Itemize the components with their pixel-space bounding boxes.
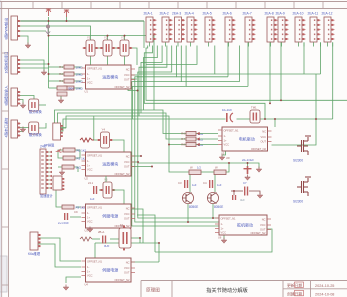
svg-text:VCC: VCC	[124, 73, 130, 77]
wire	[49, 80, 65, 82]
canvas margin strip	[0, 0, 1, 297]
wire	[110, 238, 119, 240]
wire stub	[281, 42, 283, 46]
svg-text:1uF: 1uF	[90, 197, 95, 201]
border tick	[322, 2, 324, 9]
svg-text:24.1: 24.1	[88, 181, 94, 185]
net flag	[46, 25, 50, 34]
mosfet Q4	[297, 177, 311, 196]
resistor R16	[80, 237, 92, 241]
ground	[20, 103, 26, 109]
capacitor C6 electrolytic	[244, 166, 252, 174]
wire bus	[139, 46, 215, 75]
svg-text:1uF: 1uF	[217, 183, 222, 187]
svg-text:U4: U4	[85, 283, 89, 287]
svg-text:C7: C7	[243, 181, 247, 185]
connector J7	[30, 232, 41, 250]
crystal Y1	[83, 36, 99, 57]
svg-text:10kΩ: 10kΩ	[76, 86, 84, 90]
wire stub	[298, 42, 300, 46]
junction	[158, 242, 160, 244]
svg-text:2EA-8: 2EA-8	[265, 12, 274, 16]
resistor R14	[63, 156, 86, 160]
wire	[247, 43, 249, 87]
wire	[320, 43, 322, 75]
svg-text:1+: 1+	[87, 77, 90, 81]
wire	[139, 238, 141, 243]
wire stub	[149, 42, 151, 46]
svg-text:OFFSET_N1: OFFSET_N1	[87, 153, 103, 157]
svg-text:NC: NC	[126, 67, 130, 71]
svg-text:R0 1k2: R0 1k2	[77, 148, 87, 152]
wire	[75, 150, 80, 158]
wire	[76, 206, 81, 208]
wire	[113, 190, 125, 204]
wire	[46, 187, 52, 189]
svg-text:OFFSET_N2: OFFSET_N2	[115, 278, 131, 282]
connector P1	[144, 12, 157, 43]
junction	[269, 102, 271, 104]
connector P6	[223, 12, 236, 43]
svg-text:C9: C9	[74, 210, 78, 214]
connector P4	[185, 12, 198, 43]
svg-text:SI2300: SI2300	[293, 159, 303, 163]
wire	[196, 138, 218, 140]
capacitor C11	[93, 186, 97, 194]
svg-text:8050E: 8050E	[189, 205, 198, 209]
svg-text:1-: 1-	[224, 134, 226, 138]
module K1	[29, 99, 39, 111]
junction	[212, 217, 214, 219]
svg-text:VCC: VCC	[221, 231, 227, 235]
wire net VCC top	[17, 20, 144, 22]
wire	[189, 175, 191, 193]
wire	[49, 73, 65, 75]
wire bus	[61, 116, 187, 145]
connector P11	[308, 12, 321, 43]
svg-text:VCC: VCC	[260, 223, 266, 227]
wire	[38, 244, 81, 267]
wire	[269, 43, 271, 104]
svg-text:C3: C3	[178, 181, 182, 185]
junction	[233, 190, 235, 192]
svg-text:1-: 1-	[87, 211, 89, 215]
wire	[70, 216, 81, 218]
wire	[17, 60, 44, 71]
svg-text:OUT: OUT	[124, 165, 130, 169]
wire	[131, 78, 137, 80]
connector J4	[4, 117, 21, 138]
svg-text:VCC: VCC	[124, 212, 130, 216]
component box	[57, 92, 67, 96]
junction	[107, 35, 109, 37]
svg-text:2EA-1: 2EA-1	[144, 12, 153, 16]
svg-text:1+: 1+	[87, 216, 90, 220]
wire	[249, 191, 260, 194]
junction	[168, 144, 170, 146]
ground	[58, 98, 64, 104]
resistor R7	[181, 137, 204, 141]
wire stub	[270, 42, 272, 46]
svg-text:模式转换: 模式转换	[29, 109, 43, 114]
junction	[66, 20, 68, 22]
wire bus	[61, 119, 226, 131]
junction	[48, 63, 50, 65]
svg-text:8路PWM输出: 8路PWM输出	[4, 18, 9, 40]
wire bus	[135, 46, 219, 223]
svg-text:10kΩ: 10kΩ	[76, 72, 84, 76]
svg-text:VCC: VCC	[87, 220, 93, 224]
wire	[46, 183, 52, 185]
wire	[280, 43, 282, 101]
junction	[124, 35, 126, 37]
driver module U6	[215, 215, 271, 240]
net flag	[197, 143, 200, 146]
wire bus	[146, 46, 197, 65]
regulator module U4	[82, 258, 136, 287]
resistor R8	[181, 143, 204, 147]
connector P12	[322, 12, 335, 43]
wire bus	[58, 113, 187, 139]
svg-text:NC: NC	[262, 129, 266, 133]
wire	[227, 43, 229, 77]
svg-text:U1: U1	[85, 90, 89, 94]
capacitor C7	[244, 187, 248, 196]
wire	[46, 175, 52, 177]
svg-text:R2: R2	[59, 72, 63, 76]
wire	[112, 47, 120, 49]
wire	[58, 166, 62, 168]
ground	[219, 155, 225, 161]
ground	[87, 227, 93, 233]
border tick	[119, 2, 121, 9]
wire	[49, 87, 65, 89]
wire	[158, 243, 160, 262]
svg-text:0UF: 0UF	[104, 244, 110, 248]
svg-text:K6a推理: K6a推理	[28, 251, 41, 256]
ground	[221, 238, 227, 244]
wire	[17, 63, 49, 65]
svg-text:2EA-6: 2EA-6	[223, 12, 232, 16]
canvas panel box	[0, 256, 7, 292]
resistor R3	[59, 79, 83, 83]
svg-text:Y1: Y1	[87, 36, 91, 40]
wire	[124, 56, 126, 65]
wire	[74, 87, 82, 89]
wire	[49, 36, 155, 110]
connector J3	[4, 85, 21, 106]
junction	[151, 166, 153, 168]
svg-text:2EA-9: 2EA-9	[276, 12, 285, 16]
svg-text:指关节随动分解版: 指关节随动分解版	[206, 286, 248, 294]
svg-text:OFFSET_N1: OFFSET_N1	[221, 216, 237, 220]
crystal Y2	[100, 36, 116, 57]
wire	[233, 191, 235, 195]
wire	[95, 47, 103, 49]
title block top line	[141, 280, 347, 282]
wire	[90, 56, 92, 65]
svg-text:OFFSET_N1: OFFSET_N1	[224, 128, 240, 132]
svg-text:OFFSET_N2: OFFSET_N2	[251, 231, 267, 235]
wire	[94, 139, 100, 141]
svg-text:24C: 24C	[40, 145, 47, 149]
title block row line	[283, 288, 347, 290]
wire	[143, 21, 145, 48]
resistor R2	[59, 72, 83, 76]
transistor Q2	[207, 192, 223, 209]
wire stub	[165, 42, 167, 46]
wire	[46, 167, 52, 169]
component K3	[119, 226, 131, 251]
wire	[247, 163, 249, 166]
wire	[124, 36, 126, 40]
svg-text:3uF: 3uF	[240, 198, 245, 202]
junction	[264, 118, 266, 120]
svg-text:2+1 0UF: 2+1 0UF	[58, 221, 69, 225]
wire	[107, 36, 109, 40]
svg-text:1-: 1-	[87, 72, 89, 76]
junction	[137, 90, 139, 92]
wire	[99, 189, 101, 191]
sheet border outer top	[0, 1, 347, 3]
wire	[231, 190, 243, 192]
wire stub	[190, 42, 192, 46]
resistor R18	[214, 170, 226, 175]
wire	[237, 118, 251, 120]
svg-text:NC: NC	[126, 154, 130, 158]
border tick	[293, 2, 295, 9]
svg-text:加速度计: 加速度计	[40, 193, 54, 198]
svg-text:R1: R1	[59, 65, 63, 69]
ground	[245, 175, 251, 181]
wire	[212, 204, 214, 218]
svg-text:OFFSET_N1: OFFSET_N1	[87, 66, 103, 70]
ground	[256, 167, 262, 173]
svg-text:1+: 1+	[87, 164, 90, 168]
svg-text:舵机驱动: 舵机驱动	[237, 222, 253, 228]
wire bus	[139, 46, 167, 117]
wire VCC trunk	[48, 17, 50, 88]
svg-text:1kΩ: 1kΩ	[76, 165, 82, 169]
wire	[214, 175, 216, 193]
svg-text:R6: R6	[181, 132, 185, 136]
svg-text:VCC: VCC	[261, 135, 267, 139]
wire	[92, 238, 100, 240]
module K2	[29, 122, 39, 134]
junction	[48, 73, 50, 75]
title block divider	[171, 281, 173, 297]
svg-text:OUT: OUT	[124, 78, 130, 82]
svg-text:B04: B04	[69, 86, 75, 90]
border tick	[177, 2, 179, 9]
svg-text:伺服电源: 伺服电源	[102, 213, 118, 219]
wire	[239, 46, 241, 82]
resistor R1	[59, 65, 83, 69]
border tick	[32, 2, 34, 9]
border tick	[2, 284, 9, 286]
wire	[93, 116, 95, 140]
junction	[247, 162, 249, 164]
svg-text:VCC: VCC	[87, 81, 93, 85]
ground	[25, 43, 31, 49]
wire stub	[313, 42, 315, 46]
svg-text:JW: JW	[226, 156, 230, 160]
junction	[48, 20, 50, 22]
svg-text:8050E: 8050E	[214, 205, 223, 209]
connector P9	[276, 12, 289, 43]
capacitor C4	[209, 180, 213, 188]
mosfet Q3	[297, 136, 311, 155]
ground	[63, 285, 69, 291]
svg-text:U2: U2	[85, 177, 89, 181]
connector P7	[243, 12, 256, 43]
wire	[66, 277, 81, 283]
wire	[131, 155, 141, 157]
svg-text:10+1UF: 10+1UF	[222, 108, 232, 112]
wire	[131, 161, 138, 163]
resistor R15	[62, 165, 82, 169]
svg-text:VCC: VCC	[124, 266, 130, 270]
wire	[46, 159, 52, 161]
capacitor C8	[232, 195, 236, 200]
wire	[39, 123, 46, 128]
wire	[46, 171, 52, 173]
wire	[74, 80, 82, 82]
net flag	[197, 137, 200, 140]
wire	[274, 119, 276, 127]
wire	[131, 209, 143, 243]
connector J6	[53, 176, 64, 190]
resistor R6	[181, 132, 204, 136]
svg-text:TM1: TM1	[251, 106, 257, 110]
junction	[315, 118, 317, 120]
connector J2	[4, 51, 21, 74]
title block divider	[282, 281, 284, 297]
svg-text:运放模块: 运放模块	[102, 74, 118, 80]
svg-text:NC: NC	[262, 217, 266, 221]
svg-text:2EA-10: 2EA-10	[293, 12, 304, 16]
wire bus	[141, 46, 162, 114]
wire	[74, 167, 78, 172]
svg-text:R3: R3	[59, 79, 63, 83]
svg-text:2EA-7: 2EA-7	[243, 12, 252, 16]
capacitor C3	[184, 180, 188, 188]
wire stub	[208, 42, 210, 46]
svg-text:R7: R7	[181, 137, 185, 141]
border tick	[90, 2, 92, 9]
junction	[280, 99, 282, 101]
svg-text:NC: NC	[126, 260, 130, 264]
title cell create date box	[295, 290, 304, 295]
wire	[303, 43, 305, 75]
wire	[196, 144, 218, 146]
svg-text:OFFSET_N2: OFFSET_N2	[251, 147, 267, 151]
svg-text:1-: 1-	[221, 222, 223, 226]
wire stub	[320, 42, 322, 46]
wire	[131, 74, 137, 76]
svg-text:1-: 1-	[87, 265, 89, 269]
svg-text:U6: U6	[218, 236, 222, 240]
wire bus	[215, 73, 321, 75]
title cell update date box	[295, 282, 304, 287]
border tick	[206, 2, 208, 9]
wire	[56, 190, 62, 207]
border tick	[2, 226, 9, 228]
svg-text:OFFSET_N1: OFFSET_N1	[87, 259, 103, 263]
wire stub	[248, 42, 250, 46]
wire	[196, 133, 218, 135]
crystal Y4	[97, 128, 113, 149]
resistor R17	[189, 170, 201, 175]
svg-text:2EA-4: 2EA-4	[185, 12, 194, 16]
svg-text:OUT: OUT	[124, 217, 130, 221]
wire	[95, 242, 159, 244]
crystal Y3	[117, 36, 133, 57]
capacitor C9	[64, 213, 68, 220]
wire stub	[303, 42, 305, 46]
wire stub	[332, 42, 334, 46]
wire	[17, 128, 23, 132]
border tick	[61, 2, 63, 9]
junction	[48, 35, 50, 37]
svg-text:22+1/3uF: 22+1/3uF	[242, 158, 254, 162]
driver module U5	[218, 127, 272, 156]
wire stub	[177, 42, 179, 46]
connector J5	[40, 149, 52, 194]
resistor R9	[62, 205, 85, 209]
wire	[17, 30, 46, 32]
svg-text:2024-10-25: 2024-10-25	[315, 284, 334, 288]
svg-text:OUT: OUT	[261, 140, 267, 144]
op-amp module U1	[82, 65, 136, 94]
wire bus	[146, 46, 347, 101]
svg-text:1uF: 1uF	[192, 183, 197, 187]
wire	[226, 163, 229, 172]
svg-text:K1: K1	[120, 223, 124, 227]
regulator module U3	[82, 204, 136, 233]
junction	[228, 162, 230, 164]
junction	[139, 237, 141, 239]
junction	[274, 118, 276, 120]
svg-text:运放模块: 运放模块	[102, 161, 118, 167]
svg-text:1/2: 1/2	[197, 166, 201, 170]
power VCC	[46, 9, 51, 16]
svg-text:W: W	[190, 166, 193, 170]
svg-text:OFFSET_N1: OFFSET_N1	[87, 205, 103, 209]
svg-text:Y3: Y3	[121, 36, 125, 40]
wire bus	[138, 46, 219, 219]
wire bus	[181, 81, 239, 83]
wire	[58, 150, 63, 158]
wire stub	[228, 42, 230, 46]
svg-text:电机驱动: 电机驱动	[239, 136, 255, 142]
svg-text:2EA-11: 2EA-11	[308, 12, 319, 16]
wire	[17, 100, 23, 105]
wire	[128, 89, 138, 91]
resistor R4	[59, 86, 83, 90]
wire	[105, 176, 107, 182]
svg-text:SI2300: SI2300	[293, 200, 303, 204]
ground	[20, 127, 26, 133]
svg-text:Y2: Y2	[104, 36, 108, 40]
wire	[110, 140, 124, 152]
wire	[222, 151, 226, 155]
svg-text:R8: R8	[181, 143, 185, 147]
svg-text:VCC: VCC	[87, 274, 93, 278]
resistor R12	[57, 86, 74, 90]
wire	[49, 66, 65, 68]
wire	[223, 235, 225, 239]
